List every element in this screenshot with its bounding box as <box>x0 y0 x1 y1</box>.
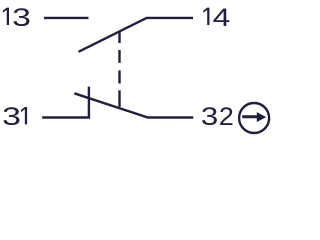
actuator icon arrow <box>242 112 266 122</box>
contact NO moving arm (13-14) <box>79 18 194 52</box>
wire (terminal 13 lead) <box>44 17 89 19</box>
svg-text:3: 3 <box>2 103 21 131</box>
terminal label 32 <box>201 103 234 131</box>
contact NC moving arm (31-32) <box>74 93 193 117</box>
terminal label 31 <box>2 103 27 131</box>
svg-text:3: 3 <box>12 4 31 32</box>
terminal label 13 <box>3 4 31 32</box>
terminal label 14 <box>203 4 230 32</box>
svg-text:2: 2 <box>219 103 234 131</box>
wire (terminal 31 lead with upturn) <box>42 87 89 118</box>
actuator icon circle <box>239 103 269 133</box>
mechanical link (dashed, 4 segments) <box>118 31 120 107</box>
svg-text:3: 3 <box>201 103 218 131</box>
svg-text:4: 4 <box>213 4 231 32</box>
